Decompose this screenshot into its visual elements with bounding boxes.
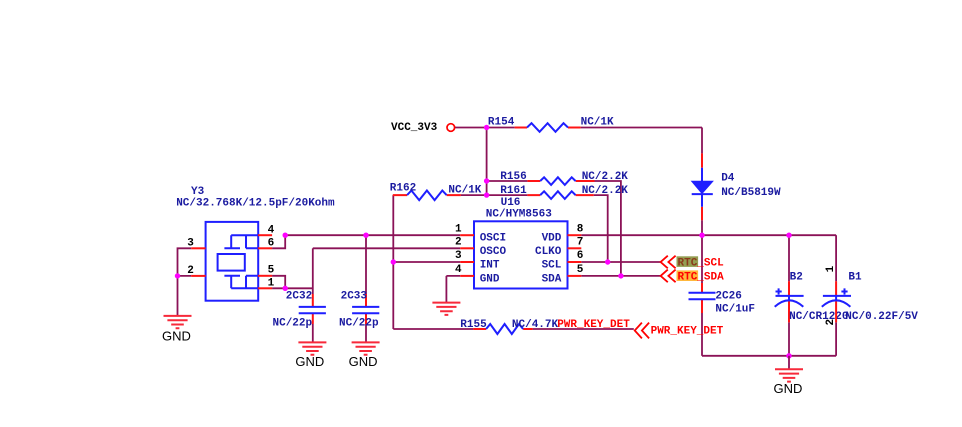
svg-text:1: 1 — [268, 278, 275, 290]
svg-text:3: 3 — [187, 237, 194, 249]
diode D4 — [701, 153, 703, 220]
capacitor C26 (2C26) — [701, 283, 703, 313]
node SCL junction — [605, 259, 610, 264]
wire R156 right down to SDA — [595, 181, 621, 276]
svg-text:GND: GND — [349, 354, 378, 369]
pin U16.8 VDD — [568, 234, 582, 236]
node 2C33 OSCI junction — [363, 233, 368, 238]
svg-text:NC/4.7K: NC/4.7K — [512, 319, 559, 331]
node INT junction — [391, 259, 396, 264]
wire Y3 pin1 to OSCO vertical — [272, 287, 313, 289]
svg-text:2: 2 — [455, 237, 462, 249]
node B2 top junction — [786, 233, 791, 238]
wire R161 left link — [487, 194, 528, 196]
wire OSCI net Y3 to U16 — [285, 234, 460, 236]
svg-text:NC/2.2K: NC/2.2K — [582, 171, 629, 183]
resistor R156 — [527, 180, 594, 182]
svg-text:4: 4 — [268, 224, 275, 236]
svg-text:3: 3 — [455, 250, 462, 262]
wire R155 left link — [393, 328, 473, 330]
wire OSCO net to U16 pin2 — [313, 247, 460, 249]
pin Y3.1 — [258, 287, 272, 289]
svg-text:SDA: SDA — [542, 274, 562, 286]
wire OSCO vertical to 2C32 — [312, 248, 314, 294]
wire Y3 left pins to GND — [178, 248, 192, 316]
ground under 2C32 — [298, 342, 326, 354]
wire B1 branch top — [835, 235, 837, 281]
pin U16.7 CLKO — [568, 247, 582, 249]
svg-text:NC/2.2K: NC/2.2K — [582, 185, 629, 197]
pin Y3.6 — [258, 247, 272, 249]
pin U16.1 OSCI — [460, 234, 474, 236]
wire 2C33 branch vertical — [365, 235, 367, 294]
svg-text:GND: GND — [162, 328, 191, 343]
crystal Y3 body — [206, 222, 259, 301]
svg-text:2: 2 — [825, 319, 837, 326]
wire SDA — [581, 275, 661, 277]
wire 2C32 bottom to GND — [312, 324, 314, 342]
svg-text:2C26: 2C26 — [715, 290, 741, 302]
svg-text:SCL: SCL — [542, 260, 562, 272]
svg-text:2: 2 — [187, 265, 194, 277]
svg-text:GND: GND — [295, 354, 324, 369]
svg-text:1: 1 — [455, 223, 462, 235]
pin Y3.5 — [258, 275, 272, 277]
svg-text:NC/CR1220: NC/CR1220 — [789, 311, 848, 323]
op IC U16 body — [474, 221, 568, 288]
svg-text:7: 7 — [577, 237, 584, 249]
svg-text:OSCI: OSCI — [480, 233, 506, 245]
svg-text:Y3: Y3 — [191, 186, 205, 198]
svg-text:B1: B1 — [848, 271, 862, 283]
wire 2C26 bottom to bus — [701, 313, 703, 356]
wire SCL — [581, 261, 661, 263]
svg-text:INT: INT — [480, 260, 500, 272]
svg-text:RTC: RTC — [678, 272, 698, 284]
svg-text:NC/HYM8563: NC/HYM8563 — [486, 209, 552, 221]
svg-text:GND: GND — [773, 381, 802, 396]
wire R156 left link — [487, 180, 528, 182]
svg-text:4: 4 — [455, 264, 462, 276]
svg-text:PWR_KEY_DET: PWR_KEY_DET — [557, 319, 630, 331]
wire bottom bus — [702, 355, 836, 357]
wire B2 branch top — [788, 235, 790, 281]
pin U16.6 SCL — [568, 261, 582, 263]
svg-text:CLKO: CLKO — [535, 246, 562, 258]
svg-text:_SDA: _SDA — [696, 272, 724, 284]
node Y3 pin4-6 junction — [283, 233, 288, 238]
svg-text:R156: R156 — [500, 171, 526, 183]
wire R154 right to corner — [581, 127, 702, 129]
wire R162 left vertical — [392, 195, 394, 329]
wire VDD bus — [581, 234, 836, 236]
svg-text:OSCO: OSCO — [480, 246, 507, 258]
ground under 2C33 — [352, 342, 380, 354]
wire VCC_3V3 to R154 — [455, 127, 515, 129]
svg-text:NC/B5819W: NC/B5819W — [721, 187, 781, 199]
wire 2C33 bottom to GND — [365, 324, 367, 342]
svg-text:NC/22p: NC/22p — [339, 317, 379, 329]
wire B2 bottom — [788, 322, 790, 355]
wire B1 bottom — [835, 322, 837, 355]
svg-text:GND: GND — [480, 274, 500, 286]
svg-text:PWR_KEY_DET: PWR_KEY_DET — [651, 326, 724, 338]
svg-text:NC/1K: NC/1K — [448, 184, 481, 196]
wire VCC junction vertical — [486, 128, 488, 196]
node D4 VDD junction — [699, 233, 704, 238]
node R156 left junction — [484, 178, 489, 183]
svg-text:R161: R161 — [500, 185, 527, 197]
wire INT net — [393, 261, 460, 263]
off-page connector PWR_KEY_DET — [635, 323, 649, 339]
wire Y3 pin5 link — [272, 276, 285, 289]
svg-text:RTC: RTC — [678, 257, 698, 269]
pin Y3.2 — [191, 275, 205, 277]
svg-text:NC/1uF: NC/1uF — [715, 304, 755, 316]
svg-text:5: 5 — [268, 265, 275, 277]
battery B1 — [835, 281, 837, 322]
svg-text:5: 5 — [577, 264, 584, 276]
capacitor C32 (2C32) — [312, 294, 314, 324]
wire 2C26 top — [701, 235, 703, 283]
battery B2 — [788, 281, 790, 322]
power VCC_3V3 connector — [447, 124, 455, 132]
svg-text:8: 8 — [577, 223, 584, 235]
off-page connector RTC_SDA — [661, 270, 676, 283]
pin Y3.3 — [191, 247, 205, 249]
wire U16 GND pin — [446, 276, 460, 303]
svg-text:2C33: 2C33 — [341, 291, 368, 303]
pin U16.4 GND — [460, 275, 474, 277]
node SDA junction — [618, 273, 623, 278]
resistor R155 — [473, 328, 532, 330]
svg-text:NC/32.768K/12.5pF/20Kohm: NC/32.768K/12.5pF/20Kohm — [176, 197, 335, 209]
resistor R154 — [515, 127, 581, 129]
svg-text:R162: R162 — [390, 183, 416, 195]
pin Y3.4 — [258, 234, 272, 236]
svg-text:NC/22p: NC/22p — [273, 317, 313, 329]
svg-text:R154: R154 — [488, 116, 515, 128]
svg-text:VDD: VDD — [542, 233, 562, 245]
svg-text:6: 6 — [268, 237, 275, 249]
ground at U16 pin4 — [432, 303, 460, 315]
resistor R161 — [527, 194, 593, 196]
svg-text:U16: U16 — [501, 197, 521, 209]
svg-text:1: 1 — [825, 265, 837, 272]
svg-text:B2: B2 — [790, 271, 803, 283]
pin U16.3 INT — [460, 261, 474, 263]
svg-text:_SCL: _SCL — [696, 257, 724, 269]
node B2 bottom junction — [786, 353, 791, 358]
node Y3 pin2 gnd junction — [175, 273, 180, 278]
wire R161 right down to SCL — [594, 195, 608, 262]
svg-text:NC/1K: NC/1K — [581, 116, 614, 128]
svg-text:2C32: 2C32 — [286, 290, 312, 302]
resistor R162 — [393, 194, 461, 196]
svg-text:NC/0.22F/5V: NC/0.22F/5V — [845, 311, 918, 323]
ground under battery bus — [788, 356, 790, 370]
wire R155 to PWR_KEY_DET connector — [533, 328, 634, 330]
node Y3 pin5-1 junction — [283, 286, 288, 291]
svg-text:R155: R155 — [460, 319, 487, 331]
svg-text:VCC_3V3: VCC_3V3 — [391, 122, 438, 134]
capacitor C33 (2C33) — [365, 294, 367, 324]
off-page connector RTC_SCL — [661, 256, 676, 269]
wire R162 right link — [461, 194, 487, 196]
svg-text:6: 6 — [577, 250, 584, 262]
pin U16.2 OSCO — [460, 247, 474, 249]
node VCC junction — [484, 125, 489, 130]
wire vertical down to D4 — [701, 128, 703, 154]
pin U16.5 SDA — [568, 275, 582, 277]
wire Y3 pin6 link — [272, 235, 285, 248]
svg-text:D4: D4 — [721, 172, 735, 184]
wire D4 cathode to VDD bus — [701, 220, 703, 235]
node R161 R162 junction — [484, 192, 489, 197]
ground left of Y3 — [164, 316, 192, 328]
